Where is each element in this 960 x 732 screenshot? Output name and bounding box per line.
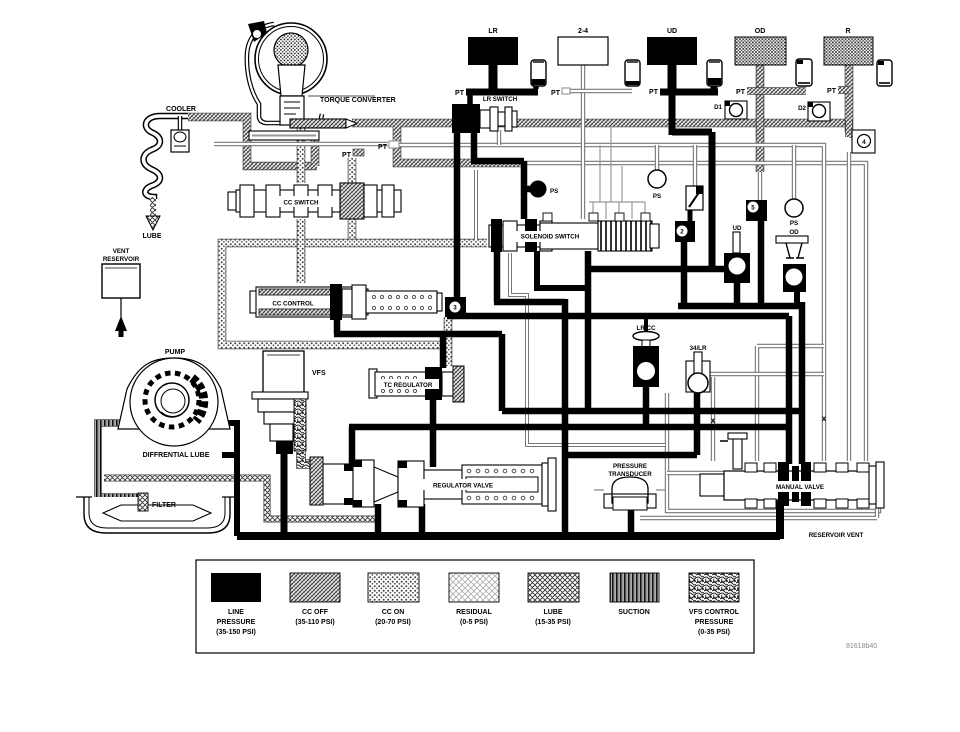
wire LR switch left column to box3: [454, 133, 461, 298]
wire solenoid left port elbow: [494, 251, 565, 302]
svg-text:81618b40: 81618b40: [846, 643, 877, 650]
svg-text:5: 5: [751, 205, 755, 212]
svg-text:(20-70 PSI): (20-70 PSI): [375, 619, 411, 626]
svg-text:TORQUE CONVERTER: TORQUE CONVERTER: [320, 97, 396, 104]
svg-text:MANUAL VALVE: MANUAL VALVE: [776, 484, 824, 491]
svg-text:FILTER: FILTER: [152, 502, 176, 509]
svg-text:PRESSURE: PRESSURE: [217, 619, 256, 626]
wire 2-4 PT bar: [562, 89, 632, 93]
pressure switch PS2: [648, 170, 666, 188]
regulator valve: [310, 457, 556, 511]
svg-text:(0-35 PSI): (0-35 PSI): [698, 629, 730, 636]
wire manual valve left residual: [667, 471, 724, 475]
wire cc vertical TC to CC switch: [297, 127, 306, 183]
box 2: [675, 221, 695, 242]
wire residual above manual valve x757: [757, 346, 824, 461]
svg-text:34/LR: 34/LR: [690, 345, 707, 352]
wire cc-on loop: [222, 243, 487, 345]
wire V588: [585, 251, 592, 411]
svg-text:REGULATOR VALVE: REGULATOR VALVE: [433, 483, 493, 490]
UD check valve: [724, 232, 750, 283]
clutch UD: [647, 37, 697, 65]
wire PS1 white stub: [655, 145, 659, 170]
svg-text:PUMP: PUMP: [165, 349, 186, 356]
wire HB: [349, 424, 789, 431]
wire R column residual below box4: [847, 152, 851, 461]
shift solenoid symbol: [686, 186, 703, 210]
legend box: [196, 560, 754, 653]
wire VFS drop: [281, 447, 288, 536]
legend swatch vfs control: [689, 573, 739, 602]
TC regulator: [369, 366, 464, 402]
box 3: [445, 297, 466, 317]
wire R PT tab hatched: [838, 86, 849, 94]
svg-text:LR: LR: [488, 28, 497, 35]
wire V352 to regulator valve: [349, 427, 356, 467]
svg-text:UD: UD: [733, 225, 742, 232]
svg-text:VFS CONTROL: VFS CONTROL: [689, 609, 740, 616]
wire 34LR residual horizontal: [710, 372, 824, 376]
wire residual y145 long: [398, 145, 824, 461]
svg-text:PRESSURE: PRESSURE: [613, 463, 647, 470]
svg-text:4: 4: [862, 139, 866, 146]
wire PS2 stub: [792, 145, 796, 199]
svg-text:CC ON: CC ON: [382, 609, 405, 616]
svg-text:CC CONTROL: CC CONTROL: [272, 301, 313, 308]
svg-text:CC SWITCH: CC SWITCH: [283, 200, 319, 207]
accumulator UD: [707, 60, 722, 86]
wire LRCC stems: [644, 316, 648, 332]
wire vfs control stepped: [301, 452, 329, 494]
wire V565 center column: [562, 299, 569, 536]
svg-text:x: x: [711, 416, 716, 425]
wire H1 to UD check: [585, 266, 724, 273]
wire cc-off long line y123: [352, 119, 849, 128]
svg-text:VENT: VENT: [113, 248, 130, 255]
svg-text:OD: OD: [755, 28, 766, 35]
svg-text:PRESSURE: PRESSURE: [695, 619, 734, 626]
svg-text:R: R: [845, 28, 850, 35]
wire lube line: [104, 478, 378, 519]
LR/CC valve: [633, 332, 659, 388]
svg-text:PS: PS: [790, 220, 798, 227]
clutch 2-4: [558, 37, 608, 65]
wire R to box4 elbow: [849, 120, 856, 137]
svg-text:3: 3: [453, 305, 457, 312]
wire LR switch lower drain residual: [474, 170, 478, 240]
svg-text:(35-150 PSI): (35-150 PSI): [216, 629, 256, 636]
wire transducer drop: [628, 508, 635, 536]
svg-text:RESIDUAL: RESIDUAL: [456, 609, 493, 616]
wire LR switch drain: [497, 130, 501, 145]
svg-text:(35-110 PSI): (35-110 PSI): [295, 619, 334, 626]
wire regulator valve bottom drops: [378, 504, 422, 536]
svg-text:OD: OD: [789, 229, 799, 236]
cooler: [144, 116, 190, 199]
wire H3 box3 to manual valve: [447, 316, 789, 464]
svg-text:DIFFRENTIAL LUBE: DIFFRENTIAL LUBE: [143, 452, 210, 459]
wire solenoid port step: [534, 251, 588, 288]
svg-text:LINE: LINE: [228, 609, 244, 616]
wire UD check lower stem: [734, 283, 741, 306]
solenoid switch valve: [489, 213, 659, 252]
svg-text:LUBE: LUBE: [543, 609, 562, 616]
svg-text:D2: D2: [798, 105, 806, 112]
accumulator LR: [531, 60, 546, 86]
accumulator OD: [796, 59, 812, 86]
wire box2 column: [681, 242, 688, 306]
LR switch: [452, 104, 517, 133]
wire bottom main line: [237, 499, 780, 539]
legend swatch line pressure: [211, 573, 261, 602]
svg-text:COOLER: COOLER: [166, 106, 196, 113]
svg-text:LR/CC: LR/CC: [637, 325, 656, 332]
wire residual y163 long: [520, 163, 866, 461]
wire cc switch to cc control vertical: [297, 219, 306, 283]
pump: [118, 358, 230, 446]
svg-text:RESERVOIR: RESERVOIR: [103, 256, 140, 263]
svg-text:PS: PS: [550, 188, 558, 195]
legend swatch residual: [449, 573, 499, 602]
svg-text:D1: D1: [714, 104, 722, 111]
wire LR switch right to solenoid: [471, 133, 531, 219]
wire TC regulator top and bottom stems: [433, 331, 443, 467]
svg-text:PT: PT: [342, 152, 352, 159]
wire OD PT bar hatched: [747, 87, 806, 95]
wire cc-off branch to y166: [397, 126, 523, 163]
wire OD check bottom stem: [794, 292, 800, 306]
wire cc vertical PT to CC switch: [348, 158, 357, 183]
filter: [76, 493, 238, 533]
vent reservoir: [102, 264, 140, 337]
clutch R: [824, 37, 873, 65]
wire OD to box5: [758, 172, 762, 200]
svg-text:x: x: [822, 414, 827, 423]
svg-text:PT: PT: [378, 144, 388, 151]
svg-text:UD: UD: [667, 28, 677, 35]
wire residual y144 left part: [214, 142, 388, 146]
svg-text:2-4: 2-4: [578, 28, 588, 35]
wire cc switch to cc-on line: [348, 219, 357, 243]
wire bottom-right residual second: [640, 508, 877, 518]
svg-text:TRANSDUCER: TRANSDUCER: [608, 471, 652, 478]
svg-text:RESERVOIR VENT: RESERVOIR VENT: [809, 532, 864, 539]
legend swatch cc off: [290, 573, 340, 602]
wire HX and outer manual valve column: [678, 302, 802, 464]
wire solenoid drain residual: [510, 253, 665, 445]
wire LR clutch drop and PT bar: [489, 65, 498, 89]
pressure transducer: [594, 477, 666, 510]
svg-text:PT: PT: [455, 90, 465, 97]
torque converter U1: [247, 21, 375, 125]
svg-text:CC OFF: CC OFF: [302, 609, 329, 616]
34/LR valve: [686, 352, 710, 393]
svg-text:(15-35 PSI): (15-35 PSI): [535, 619, 571, 626]
svg-text:PT: PT: [827, 88, 837, 95]
check ball D1: [725, 101, 747, 119]
box 5: [746, 200, 767, 221]
svg-text:SUCTION: SUCTION: [618, 609, 650, 616]
manual valve: [700, 433, 884, 508]
OD check valve: [776, 236, 808, 292]
svg-text:PT: PT: [649, 89, 659, 96]
pressure switch PS1 filled: [530, 181, 547, 198]
svg-text:PS: PS: [653, 193, 661, 200]
svg-text:LUBE: LUBE: [142, 233, 161, 240]
VFS: [252, 351, 308, 454]
wire box5 column: [758, 221, 765, 303]
converter return tube: [249, 131, 319, 140]
svg-text:2: 2: [680, 229, 684, 236]
svg-text:SOLENOID SWITCH: SOLENOID SWITCH: [521, 234, 580, 241]
svg-text:PT: PT: [736, 89, 746, 96]
converter feed tube: [290, 119, 357, 128]
wire solenoid symbol to box2: [688, 209, 693, 221]
wire cc-on box3 to tc-regulator: [444, 317, 453, 366]
box 4: [852, 130, 875, 153]
wire reservoir vent drain: [667, 393, 879, 511]
legend swatch suction: [610, 573, 659, 602]
wire pump column: [216, 420, 240, 536]
wire R clutch column hatched: [845, 65, 854, 132]
accumulator 2-4: [625, 60, 640, 86]
wire UD clutch column: [668, 65, 677, 92]
wire CC control drop HC V502: [334, 316, 502, 411]
wire HD and 34LR drop: [565, 392, 697, 455]
wire HA: [502, 408, 802, 415]
check ball D2: [808, 102, 830, 121]
wire 2-4 clutch column: [581, 65, 585, 219]
svg-text:VFS: VFS: [312, 370, 326, 377]
clutch OD: [735, 37, 786, 65]
pressure switch PS3: [785, 199, 803, 217]
legend swatch cc on: [368, 573, 419, 602]
wire residual pair x713 above manual valve: [711, 377, 715, 461]
accumulator R: [877, 60, 892, 86]
wire suction filter to pump: [98, 423, 140, 510]
svg-text:LR SWITCH: LR SWITCH: [483, 96, 518, 103]
svg-text:TC REGULATOR: TC REGULATOR: [384, 382, 433, 389]
lube arrow under cooler: [146, 197, 160, 230]
legend swatch lube: [528, 573, 579, 602]
svg-text:(0-5 PSI): (0-5 PSI): [460, 619, 488, 626]
wire OD clutch column hatched: [756, 65, 765, 172]
cc control valve: [250, 284, 442, 320]
wire solenoid symbol stem: [693, 145, 697, 186]
wire converter return vertical: [311, 137, 320, 166]
wire solenoid comb: [589, 126, 645, 219]
clutch LR: [468, 37, 518, 65]
svg-text:PT: PT: [551, 90, 561, 97]
cc switch valve: [228, 183, 401, 219]
wire cc-off cooler feed from torque converter: [188, 117, 317, 166]
